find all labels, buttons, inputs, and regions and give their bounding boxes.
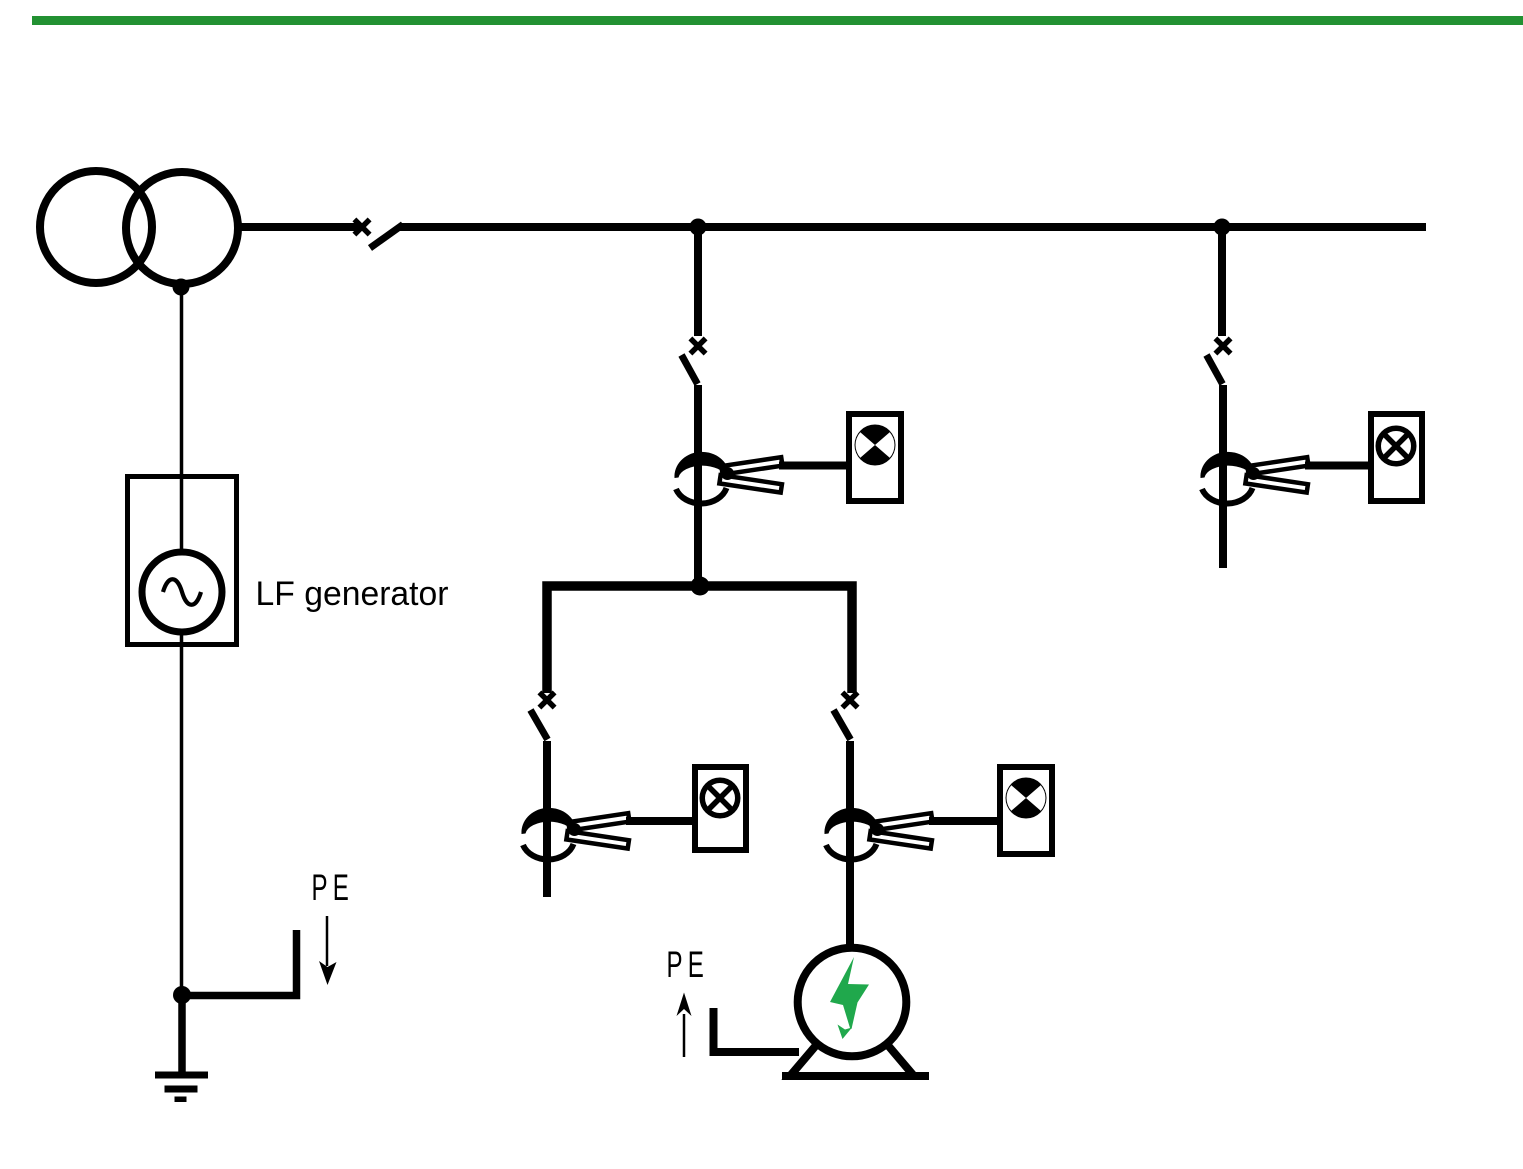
switch Q4 cross	[842, 692, 857, 707]
LF generator box	[128, 477, 237, 645]
svg-text:LF generator: LF generator	[256, 575, 449, 613]
svg-text:PE: PE	[667, 944, 710, 985]
indicator box P1	[849, 414, 901, 501]
wire CT2 to indicator	[1305, 462, 1368, 470]
wire PE hook at motor	[714, 1008, 800, 1052]
wire CT1 to indicator	[779, 462, 846, 470]
switch Q1 blade	[682, 355, 698, 384]
sine symbol	[163, 579, 201, 605]
current clamp CT1	[674, 452, 782, 504]
indicator box P3	[695, 767, 746, 850]
green header bar	[32, 16, 1523, 25]
switch Q3 blade	[531, 710, 548, 740]
wire branch B lower	[1219, 385, 1227, 568]
motor M1 lightning bolt	[830, 957, 869, 1029]
current clamp CT3	[521, 808, 629, 860]
lamp symbol P1	[855, 425, 896, 466]
wire branch A lower	[694, 385, 702, 586]
svg-text:PE: PE	[312, 867, 355, 908]
motor M1 body	[798, 948, 907, 1057]
indicator box P4	[1000, 767, 1052, 854]
lamp symbol P3	[702, 780, 738, 816]
current clamp CT4	[824, 808, 932, 860]
ground symbol	[155, 1072, 208, 1103]
switch Q0 cross	[354, 219, 369, 234]
wire bus segment from transformer	[240, 223, 365, 231]
wire CT4 to indicator	[929, 817, 997, 825]
node earth junction	[173, 986, 191, 1004]
indicator box P2	[1371, 414, 1422, 501]
wire branch C lower	[543, 741, 551, 897]
transformer T1 secondary circle	[126, 172, 238, 284]
switch Q1 cross	[690, 338, 705, 353]
switch Q2 cross	[1215, 338, 1230, 353]
wire PE hook upper-left	[183, 930, 297, 996]
wire branch D lower	[846, 741, 854, 946]
arrow PE up at motor	[683, 1014, 686, 1057]
wire main bus	[400, 223, 1426, 231]
wire branch B upper	[1218, 227, 1226, 336]
switch Q4 blade	[834, 710, 851, 740]
current clamp CT2	[1200, 452, 1308, 504]
switch Q0 blade	[370, 225, 403, 249]
switch Q3 cross	[539, 692, 554, 707]
wire neutral conductor	[180, 287, 184, 995]
lamp symbol P4	[1006, 778, 1047, 819]
arrow PE down left	[326, 916, 329, 966]
switch Q2 blade	[1207, 355, 1223, 384]
lamp symbol P2	[1378, 428, 1414, 464]
node bus junction A	[690, 219, 707, 236]
node sub-bus junction	[691, 577, 710, 596]
wire to earth	[178, 995, 186, 1072]
LF generator source G1	[142, 552, 222, 632]
motor M1 mount triangle	[790, 1003, 914, 1076]
wire branch A upper	[694, 227, 702, 336]
wire CT3 to indicator	[626, 817, 692, 825]
transformer neutral node	[173, 279, 190, 296]
motor M1 base	[782, 1072, 929, 1080]
node bus junction B	[1214, 219, 1231, 236]
transformer T1 primary circle	[40, 171, 152, 283]
wire sub-bus	[547, 586, 852, 693]
